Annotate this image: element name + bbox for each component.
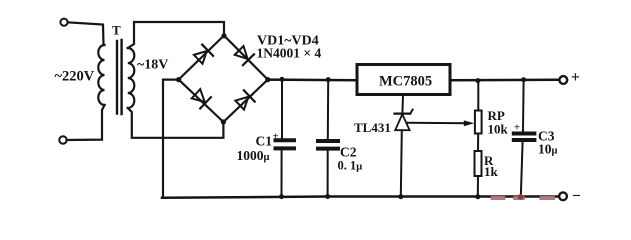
svg-text:10μ: 10μ (538, 142, 558, 157)
transformer T core (116, 41, 118, 114)
resistor R body (475, 151, 482, 176)
transformer T secondary winding (128, 23, 134, 49)
bridge edge bottom-left (179, 80, 224, 122)
svg-text:C2: C2 (340, 145, 357, 160)
terminal J1 top-left (60, 19, 67, 26)
svg-text:MC7805: MC7805 (379, 74, 432, 90)
wire TL431 anode to rail (401, 130, 402, 196)
capacitor C1 (281, 79, 283, 138)
capacitor C3 (522, 80, 525, 132)
node bridge left (176, 77, 181, 82)
wire AC2 to bridge bottom (128, 108, 224, 138)
svg-text:+: + (571, 69, 580, 86)
node C1 top (280, 77, 285, 82)
bridge edge top-left (179, 36, 224, 80)
bridge edge top-right (224, 36, 268, 80)
diode VD1 (upper-left arm) (194, 45, 213, 64)
node C3 top (521, 77, 526, 82)
svg-text:0. 1μ: 0. 1μ (338, 159, 363, 173)
wire TL431 ref to RP wiper (408, 122, 468, 125)
node C1 bottom (279, 194, 284, 199)
node bridge bottom (221, 119, 226, 124)
node R bottom (475, 194, 480, 199)
terminal J2 bottom-left (59, 136, 66, 143)
diode VD2 (upper-right arm) (235, 46, 254, 65)
capacitor C2 (327, 80, 329, 139)
svg-text:1k: 1k (484, 164, 499, 179)
watermark pink segments on bottom rail (491, 196, 555, 200)
transformer T primary winding (98, 45, 104, 105)
wire RP to R (477, 134, 479, 152)
node C3 bottom (518, 194, 523, 199)
terminal J3 output plus (559, 76, 567, 84)
bridge edge bottom-right (223, 80, 267, 122)
diode VD4 (lower-right arm) (235, 90, 254, 109)
svg-text:TL431: TL431 (354, 120, 391, 135)
svg-text:+: + (273, 132, 279, 143)
svg-text:C1: C1 (256, 134, 273, 149)
RP wiper arrow (464, 120, 474, 126)
svg-text:T: T (112, 23, 121, 38)
svg-text:−: − (572, 187, 581, 204)
node C2 top (326, 77, 331, 82)
bottom rail (162, 197, 559, 198)
node bridge right (265, 77, 270, 82)
wire R bottom (477, 176, 479, 197)
node bridge top (221, 33, 226, 38)
top rail right (450, 79, 559, 82)
node C3 bottom (red tinted) (518, 194, 524, 200)
svg-text:+: + (514, 123, 520, 134)
node RP top (475, 78, 480, 83)
svg-text:1000μ: 1000μ (237, 148, 270, 163)
TL431 D5 symbol (395, 110, 413, 131)
svg-text:~220V: ~220V (55, 69, 95, 85)
potentiometer RP body (475, 111, 482, 134)
terminal J4 output minus (559, 192, 567, 200)
node C2 bottom (325, 194, 330, 199)
svg-text:1N4001 × 4: 1N4001 × 4 (257, 46, 322, 61)
wire bridge minus to bottom rail (163, 80, 179, 198)
regulator U1 MC7805 box (357, 65, 450, 95)
node TL431 anode bottom (398, 194, 403, 199)
wire (68, 22, 104, 45)
svg-text:~18V: ~18V (137, 58, 168, 73)
svg-text:10k: 10k (488, 121, 509, 136)
diode VD3 (lower-left arm) (192, 89, 211, 108)
wire (67, 105, 105, 140)
wire top to bridge (134, 22, 224, 36)
top rail left (268, 78, 357, 81)
wire 7805 GND pin down (401, 95, 404, 114)
wire RP top (477, 81, 479, 111)
